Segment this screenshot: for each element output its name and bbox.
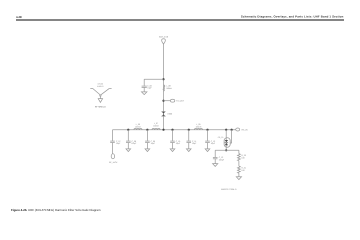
header rule <box>16 19 344 21</box>
ground <box>186 149 191 152</box>
wire to TX_OUT <box>164 100 171 102</box>
node bus 5 <box>206 129 208 131</box>
node antenna junction <box>162 78 164 80</box>
resistor R_20 <box>238 150 241 166</box>
capacitor C_08 <box>126 130 131 149</box>
svg-text:TX_OUT: TX_OUT <box>176 100 185 103</box>
svg-text:RF_JACK: RF_JACK <box>109 161 118 164</box>
resistor R_21 <box>238 166 241 177</box>
svg-text:Schematic Diagrams, Overlays,: Schematic Diagrams, Overlays, and Parts … <box>241 14 344 18</box>
svg-text:ANT_E10: ANT_E10 <box>159 35 169 38</box>
ground <box>205 149 210 152</box>
ground <box>236 177 241 180</box>
ground <box>126 149 131 152</box>
svg-text:100nH: 100nH <box>135 126 141 129</box>
diode CR_50 <box>224 130 232 151</box>
shield SH100 <box>90 88 111 102</box>
node bus 6 <box>225 129 227 131</box>
node limiter out <box>225 149 227 151</box>
ground <box>145 149 150 152</box>
node bus 1 <box>127 129 129 131</box>
terminal RX_IN <box>236 128 240 131</box>
capacitor C_06 <box>142 79 147 92</box>
svg-text:8.2pF: 8.2pF <box>132 142 138 145</box>
svg-text:Figure 4-26. UHF (403-470 MHz: Figure 4-26. UHF (403-470 MHz) Harmonic … <box>11 208 101 212</box>
svg-text:100: 100 <box>241 169 244 172</box>
svg-text:CR_50: CR_50 <box>218 136 224 139</box>
terminal TX_OUT <box>170 99 174 102</box>
wire main vertical <box>163 44 165 130</box>
svg-text:100nH: 100nH <box>153 125 159 128</box>
node bus antenna <box>162 129 164 131</box>
svg-text:100: 100 <box>241 157 244 160</box>
svg-text:SHIELD: SHIELD <box>97 85 104 88</box>
terminal RF_JACK <box>111 154 114 159</box>
svg-text:100pF: 100pF <box>219 159 225 162</box>
wire bus <box>113 129 236 131</box>
svg-text:RF SHIELD: RF SHIELD <box>95 106 106 109</box>
ground <box>213 164 218 167</box>
capacitor C_13 <box>213 150 218 163</box>
node bus 3 <box>171 129 173 131</box>
ground <box>170 149 175 152</box>
svg-text:560nH: 560nH <box>166 87 172 90</box>
inductor L_09 <box>194 128 202 129</box>
inductor L_07 <box>152 128 160 129</box>
wire to C_06 <box>144 78 163 80</box>
capacitor C_07 <box>110 141 115 154</box>
node TX junction <box>162 100 164 102</box>
svg-text:MAEPF-27034-O: MAEPF-27034-O <box>221 188 237 191</box>
svg-text:100nH: 100nH <box>196 126 202 129</box>
wire bottom branch <box>215 149 239 151</box>
wire left drop <box>112 130 114 141</box>
ground <box>142 92 147 95</box>
node bus 4 <box>188 129 190 131</box>
capacitor C_12 <box>205 130 210 149</box>
inductor L_06 <box>134 128 142 129</box>
capacitor C_09 <box>145 130 150 149</box>
surge protector E500 <box>161 112 165 117</box>
svg-text:RX_IN: RX_IN <box>242 128 248 131</box>
svg-text:E500: E500 <box>168 112 172 115</box>
capacitor C_11 <box>186 130 191 149</box>
node bus 7 <box>231 129 233 131</box>
inductor L_08 <box>164 85 165 91</box>
capacitor C_10 <box>170 130 175 149</box>
svg-text:4-28: 4-28 <box>16 15 22 19</box>
node bus 2 <box>146 129 148 131</box>
connector ANT_E10 <box>162 39 166 44</box>
